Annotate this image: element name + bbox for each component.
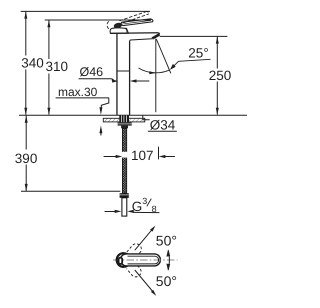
svg-text:8: 8: [152, 204, 157, 214]
svg-text:390: 390: [15, 151, 38, 166]
svg-text:340: 340: [21, 56, 44, 71]
svg-text:107: 107: [131, 148, 154, 163]
svg-text:50°: 50°: [156, 273, 177, 289]
svg-text:250: 250: [209, 68, 232, 83]
svg-text:Ø34: Ø34: [150, 117, 176, 132]
svg-text:Ø46: Ø46: [80, 65, 104, 79]
svg-text:25°: 25°: [188, 45, 208, 60]
svg-text:G: G: [132, 199, 143, 214]
svg-text:max.30: max.30: [58, 85, 98, 99]
svg-text:310: 310: [46, 59, 69, 74]
svg-text:3: 3: [142, 196, 147, 206]
svg-text:50°: 50°: [156, 233, 177, 249]
